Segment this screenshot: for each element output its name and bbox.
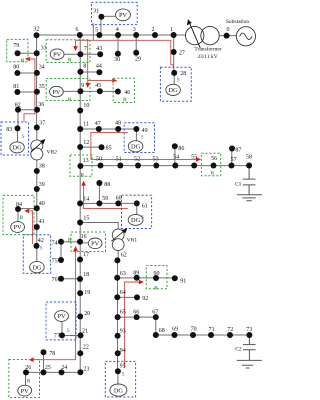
svg-text:42: 42 — [38, 238, 44, 244]
wire 67-68 — [155, 317, 157, 335]
svg-text:48: 48 — [115, 120, 121, 126]
svg-text:93: 93 — [120, 328, 126, 334]
node 68 — [153, 328, 165, 338]
node 74 — [52, 239, 64, 247]
wire PV-9 lead — [63, 90, 80, 92]
svg-text:17: 17 — [83, 252, 89, 258]
wire 11-47-48-49 — [80, 128, 136, 130]
wire 77-21 — [62, 335, 81, 337]
svg-text:73: 73 — [246, 327, 252, 333]
svg-text:79: 79 — [13, 43, 19, 49]
wire 84-PV lead — [17, 209, 19, 222]
node 52 — [134, 157, 141, 169]
svg-text:72: 72 — [227, 327, 233, 333]
svg-text:45: 45 — [95, 83, 101, 89]
node 59 — [96, 196, 108, 207]
svg-text:86: 86 — [178, 146, 184, 152]
wire 1-27-28 — [173, 35, 175, 73]
node 67 — [152, 310, 159, 321]
svg-text:59: 59 — [102, 196, 108, 202]
wire row 14-59-60-61 — [80, 202, 137, 204]
svg-text:0: 0 — [227, 27, 230, 33]
svg-text:94: 94 — [120, 348, 126, 354]
svg-text:90: 90 — [154, 271, 160, 277]
node 42 — [34, 238, 44, 249]
node 91 — [172, 275, 186, 284]
node 79 — [13, 43, 20, 56]
tie branch to switch box 46 — [88, 79, 113, 81]
PV84 box (green dashed) — [3, 195, 34, 234]
node 75 — [52, 257, 64, 264]
svg-text:51: 51 — [116, 157, 122, 163]
node 90 — [153, 271, 160, 281]
svg-text:22: 22 — [83, 345, 89, 351]
svg-text:64: 64 — [120, 290, 126, 296]
svg-text:PV: PV — [21, 388, 30, 395]
svg-text:47: 47 — [95, 121, 101, 127]
svg-text:55: 55 — [191, 155, 197, 161]
wire 7-43 — [80, 53, 100, 55]
node 53 — [153, 157, 160, 169]
node 7 — [77, 46, 87, 57]
node 81 — [13, 84, 20, 95]
PV unit U16 — [88, 238, 102, 249]
substation source G0 — [226, 19, 256, 46]
svg-text:78: 78 — [49, 351, 55, 357]
svg-text:R: R — [154, 286, 158, 291]
svg-text:S: S — [141, 215, 144, 220]
node 19 — [77, 290, 90, 296]
svg-text:40: 40 — [39, 201, 45, 207]
svg-text:92: 92 — [142, 296, 148, 302]
node 11 — [77, 121, 89, 132]
svg-text:3: 3 — [133, 27, 136, 33]
svg-text:54: 54 — [173, 155, 179, 161]
arrowhead at node 9 row — [85, 83, 90, 88]
tie line DG49 to switch 56 along row — [91, 133, 197, 160]
DG unit U95 — [110, 384, 127, 396]
node 95 — [115, 364, 126, 375]
svg-text:33: 33 — [41, 46, 47, 52]
wire 31-PV lead — [101, 15, 115, 17]
wire 83-DG lead — [17, 128, 19, 142]
node 10 — [77, 103, 89, 113]
wire 63-89-90-91 — [117, 277, 175, 279]
svg-text:38: 38 — [39, 164, 45, 170]
wire 86-54 — [174, 146, 176, 165]
svg-text:76: 76 — [52, 277, 58, 283]
PV unit U77 — [55, 311, 69, 322]
arrowhead into box 46 — [112, 78, 117, 83]
svg-text:S: S — [122, 373, 125, 378]
svg-text:VR1: VR1 — [127, 238, 138, 244]
svg-text:R: R — [123, 98, 127, 103]
node 89 — [133, 271, 140, 281]
svg-text:85: 85 — [106, 146, 112, 152]
wire 12-85 — [80, 146, 101, 148]
wire 64-92 — [117, 296, 137, 298]
svg-text:R: R — [81, 173, 85, 178]
node 94 — [115, 348, 126, 356]
switch 46 box (green dashed) — [113, 78, 134, 102]
wire 82-83 — [17, 110, 19, 129]
svg-text:S: S — [177, 79, 180, 84]
svg-text:21: 21 — [82, 328, 88, 334]
wire 15-VR1 lead — [80, 223, 118, 261]
svg-text:81: 81 — [13, 84, 19, 90]
wire main feeder bus 32-1 — [37, 34, 186, 36]
wire 95-DG lead — [117, 371, 119, 384]
node 28 — [171, 70, 186, 77]
svg-text:65: 65 — [120, 309, 126, 315]
wire 76-18 — [61, 278, 80, 280]
wire 80-34 — [17, 72, 37, 74]
svg-text:29: 29 — [135, 56, 141, 62]
PV unit U26 — [18, 385, 32, 396]
node 77 — [54, 332, 65, 339]
arrowhead into box 56 — [196, 157, 201, 162]
svg-text:C1: C1 — [235, 182, 242, 188]
PV7 box (green dashed) — [46, 40, 90, 63]
node 51 — [116, 157, 124, 169]
svg-text:69: 69 — [172, 326, 178, 332]
svg-text:74: 74 — [52, 240, 58, 246]
svg-text:60: 60 — [116, 196, 122, 202]
svg-text:Substation: Substation — [226, 19, 249, 25]
svg-text:26: 26 — [25, 365, 31, 371]
switch 13 box (green dashed) — [70, 155, 92, 176]
svg-text:58: 58 — [246, 155, 252, 161]
svg-text:37: 37 — [39, 120, 45, 126]
node 4 — [115, 27, 121, 38]
svg-text:C2: C2 — [235, 346, 242, 352]
svg-text:53: 53 — [153, 157, 159, 163]
wire branch 37-VR2-38-39-40-41-42 vertical — [36, 128, 38, 262]
DG83 box (blue dashed) — [1, 122, 29, 155]
svg-text:5: 5 — [95, 28, 98, 34]
switch 56 box (green dashed) — [201, 153, 220, 176]
svg-text:R: R — [211, 172, 215, 177]
svg-text:46: 46 — [124, 90, 130, 96]
wire 61-DG lead — [136, 203, 138, 214]
svg-text:DG: DG — [114, 387, 124, 394]
node 46 — [115, 89, 130, 96]
svg-text:S: S — [92, 24, 95, 29]
node 49 — [133, 126, 147, 134]
svg-text:PV: PV — [57, 313, 66, 320]
svg-text:20: 20 — [84, 311, 90, 317]
voltage regulator VR1 — [111, 228, 137, 250]
svg-text:16: 16 — [81, 234, 87, 240]
svg-text:57: 57 — [231, 157, 237, 163]
node 24 — [59, 365, 68, 375]
svg-text:10: 10 — [83, 103, 89, 109]
node 47 — [95, 121, 102, 132]
node 88 — [96, 180, 110, 188]
svg-text:43: 43 — [96, 46, 102, 52]
substation PV31 box (blue dashed) — [92, 2, 138, 24]
svg-text:DG: DG — [32, 264, 42, 271]
node 30 — [114, 51, 121, 63]
node 70 — [190, 327, 197, 338]
svg-text:75: 75 — [52, 258, 58, 264]
node 57 — [229, 157, 237, 169]
wire 16-PV lead — [80, 242, 88, 244]
node 71 — [208, 327, 215, 338]
svg-text:S: S — [67, 329, 70, 334]
node 18 — [77, 272, 89, 282]
svg-text:67: 67 — [152, 310, 158, 316]
wire 82-36 — [18, 109, 37, 111]
PV77 box (blue dashed) — [46, 302, 76, 340]
tie line DG95 to switch 90 — [125, 282, 141, 368]
node 69 — [172, 326, 179, 338]
wire 79-33 — [18, 52, 37, 54]
node 27 — [171, 49, 185, 57]
node 58 — [246, 155, 252, 169]
node 17 — [77, 252, 89, 262]
svg-text:DG: DG — [131, 144, 141, 151]
svg-text:88: 88 — [104, 182, 110, 188]
svg-text:31: 31 — [93, 9, 99, 15]
svg-text:44: 44 — [96, 64, 102, 70]
svg-text:68: 68 — [159, 328, 165, 334]
svg-text:S: S — [40, 247, 43, 252]
node 13 — [77, 158, 88, 169]
node 73 — [246, 327, 252, 338]
arrowhead toward box 13 — [81, 181, 86, 186]
node 41 — [34, 219, 45, 230]
node 14 — [77, 196, 89, 206]
node 20 — [77, 311, 90, 320]
wire row 68-69-70-71-72-73 — [156, 334, 250, 336]
wire 3-29 — [135, 35, 137, 53]
DG unit U49 — [128, 141, 143, 152]
svg-text:71: 71 — [209, 327, 215, 333]
DG unit U61 — [128, 214, 143, 225]
PV16 box (green dashed) — [71, 232, 106, 252]
wire 87-57 — [231, 149, 233, 166]
tie branch to node 7 — [75, 40, 77, 46]
node 82 — [15, 103, 21, 113]
node 5 — [95, 28, 102, 38]
tie line DG42 to PV84 — [30, 211, 32, 244]
svg-text:84: 84 — [16, 202, 22, 208]
arrowhead at node 7 — [73, 46, 78, 51]
DG49 box (blue dashed) — [124, 123, 154, 153]
DG unit U42 — [30, 261, 45, 272]
svg-text:50: 50 — [96, 157, 102, 163]
tie branch down to rows 44-45 — [87, 40, 89, 80]
node 25 — [41, 365, 51, 375]
node 76 — [52, 276, 64, 283]
svg-text:82: 82 — [15, 103, 21, 109]
voltage regulator VR2 — [31, 139, 57, 160]
svg-text:S: S — [141, 136, 144, 141]
wire 74-75 — [60, 242, 62, 260]
node 22 — [77, 345, 89, 357]
capacitor C1 with ground — [235, 166, 262, 201]
svg-text:DG: DG — [169, 87, 179, 94]
node 21 — [78, 328, 88, 338]
node 50 — [96, 157, 104, 169]
arrowhead at node 84 — [24, 209, 29, 214]
svg-text:63: 63 — [120, 271, 126, 277]
node 48 — [115, 120, 121, 132]
svg-text:11: 11 — [83, 121, 89, 127]
node 33 — [34, 46, 47, 57]
wire PV-7 lead — [64, 53, 80, 55]
DG95 box (blue dashed) — [105, 361, 135, 397]
node 43 — [96, 46, 103, 57]
wire branch 32-33-34-35-36-37 vertical — [36, 35, 38, 128]
node 23 — [77, 367, 89, 376]
tie branch to PV31 box — [92, 25, 94, 41]
wire 8-44 — [80, 71, 99, 73]
svg-text:62: 62 — [121, 253, 127, 259]
svg-text:19: 19 — [84, 290, 90, 296]
wire 78-25 — [43, 352, 45, 372]
arrowhead at node 26 — [29, 357, 34, 362]
svg-text:9: 9 — [81, 83, 84, 89]
node 44 — [96, 64, 103, 76]
DG42 box (blue dashed) — [23, 235, 50, 274]
svg-text:4: 4 — [116, 27, 119, 33]
node 72 — [227, 327, 233, 338]
switch 79 box (green dashed) — [7, 39, 28, 61]
DG61 box (blue dashed) — [122, 195, 152, 228]
svg-text:89: 89 — [133, 271, 139, 277]
node 36 — [34, 102, 44, 113]
wire row 26-25-24-23 — [26, 371, 80, 373]
node 86 — [172, 143, 185, 152]
node 55 — [191, 155, 197, 169]
svg-text:35: 35 — [39, 84, 45, 90]
svg-text:39: 39 — [39, 182, 45, 188]
svg-text:66: 66 — [133, 310, 139, 316]
capacitor C2 with ground — [235, 335, 262, 368]
wire 16-74 — [61, 241, 80, 243]
tie line DG61 toward switch 13 — [84, 185, 128, 209]
svg-text:18: 18 — [83, 272, 89, 278]
wire 81-35 — [17, 91, 37, 93]
node 78 — [41, 349, 56, 357]
PV unit U9 — [50, 86, 64, 97]
node 9 — [77, 83, 84, 94]
svg-text:DG: DG — [13, 145, 23, 152]
svg-text:56: 56 — [211, 156, 217, 162]
svg-text:27: 27 — [179, 51, 185, 57]
wire chain 62-63-64-65-93-94-95 — [117, 260, 119, 371]
svg-text:30: 30 — [114, 57, 120, 63]
svg-text:12: 12 — [83, 140, 89, 146]
node 38 — [34, 164, 45, 174]
svg-text:PV: PV — [53, 51, 62, 58]
node 16 — [77, 234, 87, 245]
wire 26-PV lead — [25, 372, 27, 385]
svg-text:7: 7 — [84, 46, 87, 52]
wire 84-40 — [18, 208, 37, 210]
node 15 — [77, 215, 89, 225]
svg-text:R: R — [21, 59, 25, 64]
svg-text:1: 1 — [170, 27, 173, 33]
node 31 — [93, 9, 104, 20]
svg-text:23: 23 — [83, 367, 89, 373]
svg-text:83: 83 — [6, 127, 12, 133]
node 83 — [6, 125, 20, 132]
wire 49-DG lead — [135, 129, 137, 141]
node 34 — [34, 65, 45, 76]
PV unit U84 — [11, 222, 25, 233]
svg-text:49: 49 — [142, 128, 148, 134]
node 35 — [34, 84, 45, 95]
svg-text:PV: PV — [119, 12, 128, 19]
node 66 — [133, 310, 139, 321]
svg-text:32: 32 — [33, 27, 39, 33]
wire 65-66-67 — [118, 316, 156, 318]
node 65 — [115, 309, 126, 320]
node 61 — [134, 200, 148, 209]
node 85 — [99, 144, 112, 151]
wire 28-DG lead — [173, 73, 175, 85]
svg-text:70: 70 — [191, 327, 197, 333]
svg-text:34: 34 — [39, 65, 45, 71]
svg-text:13: 13 — [83, 158, 89, 164]
node 62 — [114, 253, 126, 264]
node 26 — [23, 365, 31, 375]
wire 4-30 — [117, 35, 119, 54]
arrowhead at switch 16 — [73, 246, 78, 251]
svg-text:36: 36 — [38, 102, 44, 108]
svg-text:VR2: VR2 — [47, 150, 58, 156]
node 32 — [33, 27, 39, 39]
svg-text:S: S — [22, 135, 25, 140]
node 6 — [76, 27, 83, 38]
node 2 — [152, 27, 159, 38]
svg-text:95: 95 — [120, 364, 126, 370]
node 60 — [115, 196, 121, 207]
PV26 box (green dashed) — [9, 360, 40, 398]
wire row 13-50-51-52-53-54-55-56-57-58 — [80, 165, 249, 167]
svg-text:PV: PV — [91, 241, 100, 248]
tie line feeder to DG28 along bus — [76, 40, 174, 67]
node 3 — [133, 27, 140, 38]
node 40 — [34, 201, 45, 211]
wire 9-45-46 — [80, 90, 118, 92]
node 92 — [134, 294, 148, 302]
DG unit U28 — [166, 84, 181, 95]
svg-text:52: 52 — [134, 157, 140, 163]
svg-text:PV: PV — [14, 224, 23, 231]
DG28 box (blue dashed) — [160, 67, 191, 101]
svg-text:77: 77 — [54, 333, 60, 339]
svg-text:87: 87 — [235, 148, 241, 154]
PV9 box (green dashed) — [46, 79, 90, 101]
node 45 — [95, 83, 103, 94]
svg-text:2: 2 — [152, 27, 155, 33]
node 80 — [13, 64, 20, 76]
node 84 — [15, 202, 22, 212]
svg-text:61: 61 — [142, 204, 148, 210]
wire main lateral 6-7-...-23 vertical — [79, 35, 81, 372]
svg-text:91: 91 — [180, 279, 186, 285]
PV unit U31 — [116, 9, 131, 21]
svg-text:80: 80 — [13, 64, 19, 70]
wire 77-PV lead — [61, 322, 63, 336]
node 54 — [172, 155, 179, 169]
tie line from PV16 down to node 26 — [32, 250, 76, 360]
node 1 — [170, 27, 177, 38]
